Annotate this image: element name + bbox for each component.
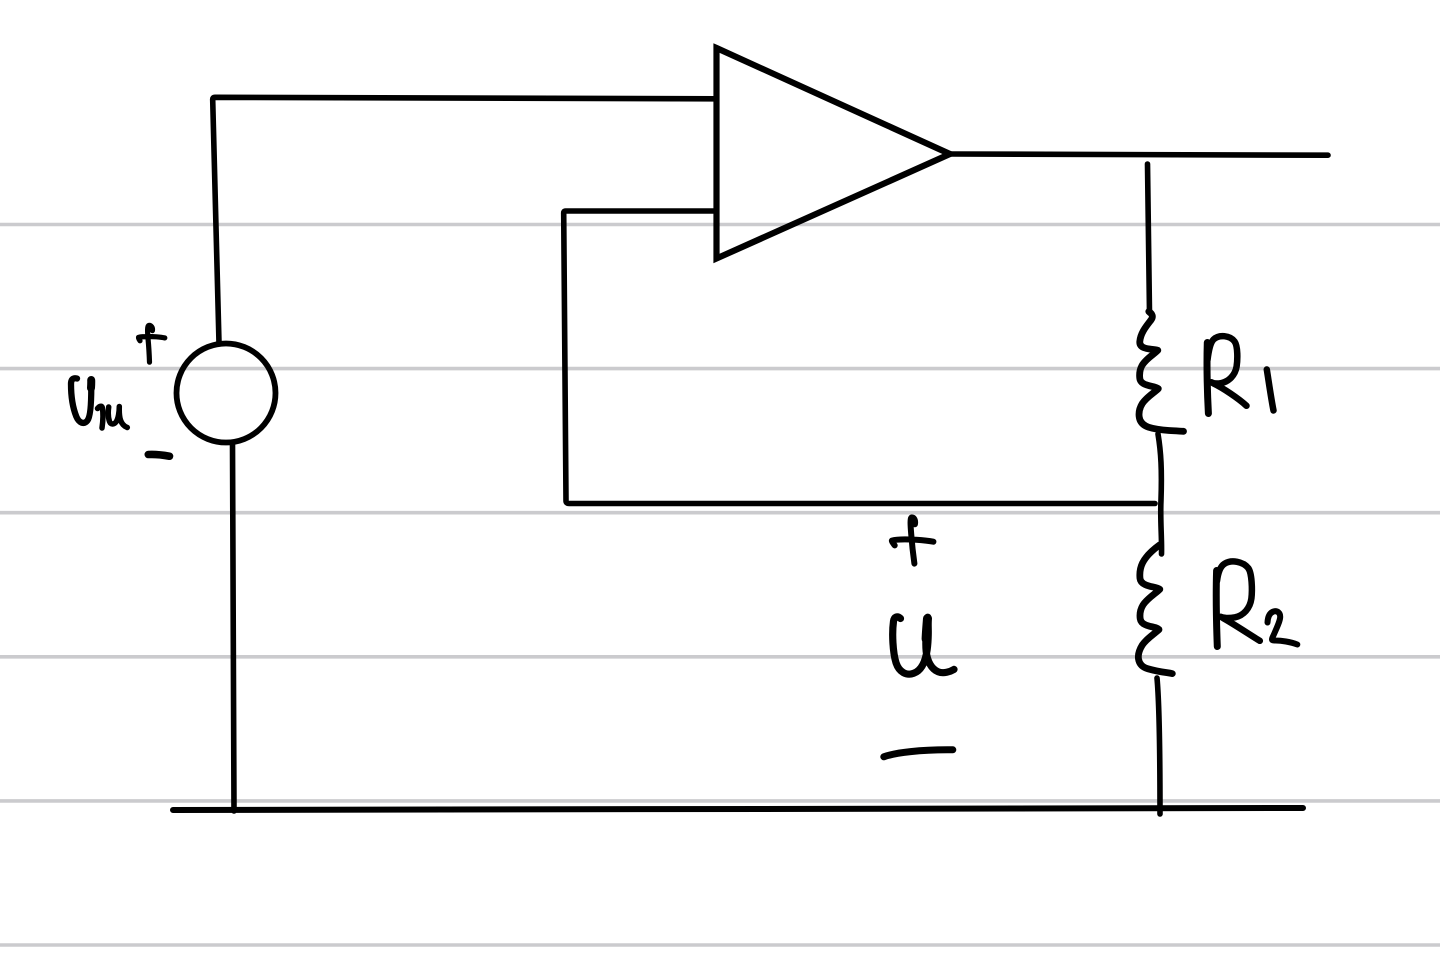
op-amp U1 (717, 48, 951, 259)
resistor R2 (1138, 545, 1172, 674)
wire R2 to ground (1157, 678, 1160, 814)
wire output (950, 154, 1328, 155)
label R2 (1216, 571, 1217, 647)
label + (u polarity) (892, 517, 934, 563)
label R1 (1207, 343, 1208, 414)
wire R1 to R2 (feedback junction) (1158, 434, 1162, 554)
wire inverting input / feedback (564, 211, 1155, 504)
label - (source polarity) (148, 454, 169, 456)
wire ground rail (173, 808, 1303, 810)
voltage source Uin (177, 344, 276, 443)
label Uin (71, 378, 91, 423)
wire non-inverting input (source top to op-amp +) (213, 97, 716, 343)
label + (source polarity) (138, 325, 164, 362)
label u (893, 617, 954, 674)
wire source to ground (233, 443, 235, 811)
resistor R1 (1139, 312, 1183, 432)
wire output to R1 (1148, 164, 1150, 313)
label - (u polarity) (884, 750, 953, 757)
